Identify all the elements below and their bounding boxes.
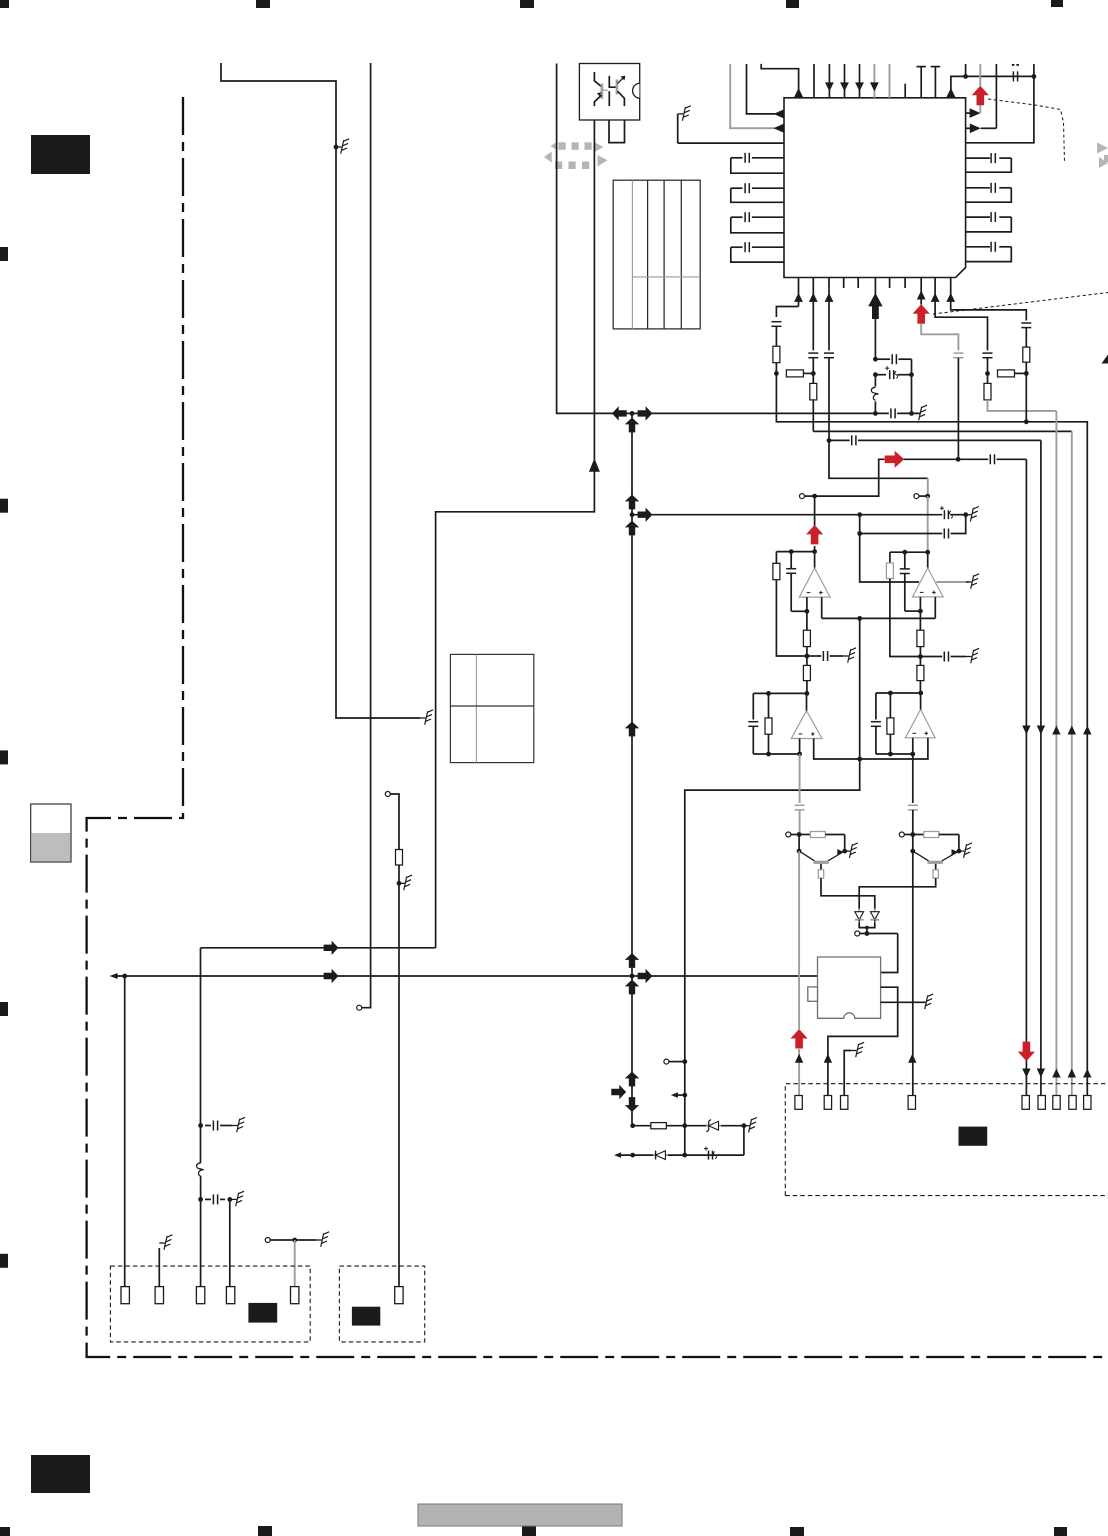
junction db r1 c xyxy=(742,1123,747,1128)
op-amp U2a xyxy=(791,711,822,739)
ground at wire A bottom xyxy=(420,717,426,719)
flow cluster 1 junction xyxy=(630,411,635,416)
ground crystal row xyxy=(914,412,920,414)
transistor Q1 base lead xyxy=(799,851,814,861)
junction on wire A xyxy=(334,145,339,150)
table 2x2 block xyxy=(450,654,533,762)
wire U2a top rail xyxy=(753,692,807,694)
wire chain right upper xyxy=(912,754,914,803)
wire U1b fb left drop xyxy=(889,552,891,563)
wire U1b output lower xyxy=(927,552,929,568)
wire top-left vertical run B xyxy=(362,63,371,1008)
junction Q2 top xyxy=(910,832,915,837)
black label block top-left xyxy=(31,135,90,174)
resistor Q1 base gray xyxy=(799,834,810,836)
junction Q1 base xyxy=(797,849,802,854)
IC pin bottom 6 arrow xyxy=(931,293,940,302)
arrow row4 upper xyxy=(1068,726,1076,735)
junction red row x958 xyxy=(956,457,961,462)
CN1 pin 3 xyxy=(196,1287,204,1304)
wire bus tail xyxy=(951,514,966,516)
flow cluster 4 arrow below xyxy=(625,980,639,995)
junction U2b rail m xyxy=(888,691,893,696)
wire x594 vertical xyxy=(436,120,595,948)
IC pin top 6 wire gray xyxy=(873,64,875,98)
junction U1a fb xyxy=(812,549,817,554)
resistor U1b inv 2 xyxy=(917,665,924,680)
ground CN3 pin3 xyxy=(851,1050,857,1052)
wire diode row drop xyxy=(881,934,898,973)
wire row3 with cap xyxy=(829,439,850,441)
resistor row x776-x813 xyxy=(776,372,778,374)
IC pin bottom 1 arrow xyxy=(794,293,803,302)
wire crystal left rail xyxy=(874,319,876,359)
junction U2b rail r xyxy=(918,691,923,696)
IC pin bottom 3 arrow xyxy=(825,293,834,302)
wire red row right xyxy=(904,458,989,460)
junction cap row2 xyxy=(198,1197,203,1202)
dashed leader line from red arrow A xyxy=(988,99,1065,163)
legend box two-tone xyxy=(31,804,71,862)
junction db r1 b xyxy=(682,1123,687,1128)
relay bottom route xyxy=(828,987,898,1095)
junction Q2 base xyxy=(910,849,915,854)
arrow chain right pin xyxy=(908,1054,916,1063)
dots above capacitor xyxy=(1012,64,1015,66)
ground on x399 xyxy=(399,882,405,884)
arrow out row1 xyxy=(774,109,785,119)
junction U1b out top xyxy=(925,494,930,499)
IC pin top 5 wire xyxy=(859,64,861,98)
junction x684 stub2 xyxy=(682,1093,687,1098)
flow arrow on line B xyxy=(324,969,339,983)
ground relay xyxy=(920,1001,926,1003)
terminal circle x388 xyxy=(385,792,390,797)
capacitor chain right gray xyxy=(908,804,918,806)
red arrow C right xyxy=(885,451,905,468)
wire chain gray pin tail xyxy=(798,1049,800,1096)
IC pin top 1 wire xyxy=(761,64,798,98)
dashed leader line from red arrow B xyxy=(933,293,1108,315)
transistor Q2 base lead xyxy=(913,851,929,861)
registration mark bottom 5 xyxy=(1054,1527,1067,1536)
wire U2b inv xyxy=(912,738,914,754)
arrow relay route pin xyxy=(824,1054,832,1063)
wire IC right out row2 xyxy=(966,127,971,129)
flow cluster 4 junction xyxy=(630,974,635,979)
resistor rail x776 xyxy=(773,346,780,363)
wire Q2 right drop xyxy=(958,835,960,852)
wire riser to opamp U2b out gray xyxy=(927,478,929,496)
ground Q1 emitter xyxy=(845,850,851,852)
resistor row x987-x1026 xyxy=(988,372,990,374)
wire U2a out riser xyxy=(806,693,808,710)
registration mark bottom 1 xyxy=(0,1527,10,1536)
wire IC left out row1 xyxy=(747,64,776,114)
arrow row1 lower xyxy=(1022,1069,1030,1078)
wire gray step x958 xyxy=(921,324,958,351)
junction U1b cap bottom xyxy=(918,609,923,614)
arrow row3 lower xyxy=(1037,1069,1045,1078)
filter loop left 1 xyxy=(752,157,784,159)
stub Q1 circle xyxy=(791,834,799,836)
electrolytic cap on bus xyxy=(943,510,945,519)
junction diode mid xyxy=(865,926,869,930)
IC pin bottom 7 wire xyxy=(950,278,952,300)
CN1 pin 2 xyxy=(155,1287,163,1304)
transistor Q1 collector xyxy=(820,864,822,870)
CN3 pin 1 xyxy=(795,1096,802,1110)
filter loop left 3 xyxy=(752,216,784,218)
red arrow D down xyxy=(1018,1042,1035,1062)
junction bus ground xyxy=(963,512,968,517)
wire U1a inv input xyxy=(806,597,808,630)
CN2 label block xyxy=(352,1307,380,1326)
IC pin top 11 wire xyxy=(951,76,966,97)
resistor U1a inv 2 xyxy=(803,665,810,680)
CN3 label block xyxy=(959,1127,988,1146)
photocoupler transistor left xyxy=(594,72,601,87)
junction right rail xyxy=(963,74,968,79)
IC pin bottom 3 wire xyxy=(828,278,830,351)
junction cap row2 right xyxy=(227,1197,232,1202)
CN3 pin 5 xyxy=(1022,1096,1029,1110)
wire U1a cap bottom link xyxy=(791,610,807,612)
CN1 pin 1 xyxy=(121,1287,129,1304)
junction cap row1 xyxy=(198,1123,203,1128)
wire chain gray to pin xyxy=(798,851,800,1029)
wire U1a fb row xyxy=(776,551,814,553)
wire U1a output riser xyxy=(814,496,816,527)
wire U2a bottom rail xyxy=(753,753,799,755)
wire ground row into IC xyxy=(678,142,784,144)
wire crystal mid row xyxy=(875,374,886,376)
flow cluster 2 arrow right xyxy=(638,508,653,522)
op-amp U1b xyxy=(913,568,944,597)
resistor U2b fb xyxy=(889,693,891,718)
IC pin bottom stub d xyxy=(904,278,906,289)
op-amp U2b xyxy=(905,710,935,738)
IC pin top 6 arrow xyxy=(870,82,879,91)
transistor Q1 emitter lead xyxy=(828,852,843,861)
terminal circle U1a out xyxy=(800,494,805,499)
ground cap row2 xyxy=(231,1198,237,1200)
terminal circle Q1 xyxy=(786,832,791,837)
registration mark top 5 xyxy=(1051,0,1063,7)
registration mark left 1 xyxy=(0,247,8,261)
junction right rail 2 xyxy=(1032,74,1037,79)
photocoupler bottom tab xyxy=(609,120,625,143)
wire U1a inv lower xyxy=(806,681,808,694)
junction rail x813 xyxy=(811,371,816,376)
arrow row3 upper xyxy=(1037,726,1045,735)
IC pin top 5 arrow xyxy=(855,82,864,91)
junction U1a fb cap xyxy=(789,549,794,554)
filter loop right 2 xyxy=(966,187,990,189)
IC pin top 10 wire T xyxy=(934,67,936,98)
wire noninv row y618 xyxy=(822,617,936,619)
junction crystal tr xyxy=(909,372,914,377)
terminal circle x684 xyxy=(664,1059,669,1064)
junction U2a brail r xyxy=(797,752,802,757)
junction crystal bl xyxy=(873,411,878,416)
capacitor double x1026 xyxy=(1021,322,1031,324)
junction U2a rail r xyxy=(805,691,810,696)
registration mark left 5 xyxy=(0,1254,8,1268)
wire x1026 mid xyxy=(1025,362,1027,422)
IC pin bottom 7 arrow xyxy=(946,293,955,302)
CN1 pin 4 xyxy=(226,1287,234,1304)
wire row4 drop gray xyxy=(1071,431,1073,1095)
CN1 pin 5 xyxy=(291,1287,299,1304)
ground top small circuit xyxy=(678,113,684,115)
wire bus y515 xyxy=(632,514,942,516)
capacitor U1b fb xyxy=(904,552,906,569)
flow arrow above cluster 2 xyxy=(625,495,639,510)
terminal circle wire B xyxy=(357,1005,362,1010)
flow arrow on line A xyxy=(324,941,339,955)
flow cluster 1 arrow below xyxy=(625,418,639,433)
registration mark top 3 xyxy=(520,0,534,8)
ground diode block xyxy=(744,1125,750,1127)
capacitor chain left gray xyxy=(795,804,805,806)
junction Q1 top xyxy=(797,832,802,837)
wire Q1 right drop xyxy=(844,835,846,852)
junction diode row xyxy=(865,931,870,936)
wire diode row xyxy=(860,933,898,935)
IC pin bottom 4 wire big xyxy=(874,278,876,320)
wire U1b fb left lower xyxy=(890,579,920,657)
wire U1b noninv drop xyxy=(934,597,936,619)
junction db r2 b xyxy=(682,1153,687,1158)
junction db r2 a xyxy=(630,1153,635,1158)
flow cluster 2 junction xyxy=(630,512,635,517)
junction Q1 emitter xyxy=(842,849,847,854)
wire U2b bottom rail xyxy=(876,753,913,755)
stub circle x684 xyxy=(669,1061,685,1063)
IC pin top 3 wire xyxy=(828,64,830,98)
registration mark left 3 xyxy=(0,750,8,764)
registration mark top-left xyxy=(0,0,9,8)
IC pin top 8 stub xyxy=(904,84,906,98)
wire CN1 pin5 riser gray xyxy=(294,1240,296,1287)
arrow out row2 right xyxy=(970,124,981,134)
junction U1b fb cap xyxy=(902,550,907,555)
filter loop right 3 xyxy=(966,216,990,218)
wire row1 drop xyxy=(1025,459,1027,1095)
resistor x1026 xyxy=(1023,347,1030,362)
wire gray x987 to row2 xyxy=(988,400,1057,411)
arrow row2 lower xyxy=(1052,1069,1060,1078)
wire gray riser x980 xyxy=(979,64,981,86)
wire IC left out row2 gray xyxy=(730,64,775,128)
wire IC right top rail xyxy=(966,75,1032,77)
gray footer bar xyxy=(418,1504,622,1526)
arrow up on wire x594 xyxy=(589,458,600,472)
registration mark top 2 xyxy=(256,0,270,8)
diode D1 xyxy=(858,909,860,912)
junction U2b brail r xyxy=(910,752,915,757)
junction U1a cap bottom xyxy=(805,609,810,614)
wire U2a noninv xyxy=(814,739,860,760)
wire circle to junction xyxy=(270,1239,316,1241)
capacitor U1a fb xyxy=(790,552,792,569)
junction U2a brail m xyxy=(766,752,771,757)
wire IC right out row1 xyxy=(966,112,971,114)
junction U1b mid xyxy=(918,654,923,659)
arrow chain left pin xyxy=(795,1054,803,1063)
photocoupler PC1 box xyxy=(579,64,639,121)
junction shield row2 xyxy=(857,531,862,536)
junction U2b brail m xyxy=(888,752,893,757)
IC pin bottom stub a xyxy=(843,278,845,289)
wire U1b cap bottom link xyxy=(905,610,921,612)
wire center drop x859 xyxy=(859,618,861,759)
wire CN1 pin1 drop xyxy=(124,976,126,1287)
junction shield top xyxy=(857,512,862,517)
wire crystal right rail xyxy=(911,359,913,413)
CN3 pin 2 xyxy=(824,1096,831,1110)
wire shield gray right xyxy=(936,581,969,583)
resistor U2a fb xyxy=(768,693,770,718)
flow arrow above cluster 4 xyxy=(625,953,639,968)
flow cluster 1 arrow right xyxy=(638,406,653,420)
wire U1a noninv drop xyxy=(821,597,823,618)
ground CN1 pin2 xyxy=(159,1242,165,1244)
connector CN2 dashed box xyxy=(339,1266,424,1342)
ground shield right xyxy=(966,581,972,583)
registration mark left 4 xyxy=(0,1002,8,1016)
ground cap row1 xyxy=(232,1125,238,1127)
wire chain right lower xyxy=(912,810,914,1096)
stub above junction xyxy=(965,64,967,76)
junction row5 x1026 xyxy=(1024,419,1029,424)
IC pin top 3 arrow xyxy=(825,82,834,91)
resistor Q2 base gray xyxy=(913,834,924,836)
diode block lower diode xyxy=(653,1154,656,1156)
filter loop right 4 xyxy=(966,246,990,248)
wire right loop down xyxy=(966,64,1034,143)
transistor Q1 base bar xyxy=(814,861,829,864)
wire chain left gray upper xyxy=(799,754,801,803)
transistor Q2 collector xyxy=(935,864,937,870)
flow cluster 4 arrow right xyxy=(638,969,653,983)
zener diode block xyxy=(706,1125,709,1127)
junction center drop plus row xyxy=(857,757,862,762)
registration mark bottom 3 xyxy=(522,1526,536,1536)
CN1 label block xyxy=(248,1303,277,1323)
filter loop left 4 xyxy=(752,246,784,248)
junction db r1 a xyxy=(630,1123,635,1128)
partial arrow at right edge xyxy=(1102,355,1108,364)
ground bus xyxy=(966,514,972,516)
wire x399 from circle xyxy=(390,794,399,1287)
IC pin bottom 6 wire xyxy=(934,278,936,300)
wire U1a output lower xyxy=(814,546,816,568)
gray dashed loop arrow marker (left) xyxy=(559,142,566,150)
wire Q1 collector row xyxy=(821,878,875,908)
flow arrow cluster 3 xyxy=(625,722,639,737)
left arrowhead line B xyxy=(110,973,118,979)
wire shield row left xyxy=(860,515,919,582)
ground mid-left xyxy=(316,1239,322,1241)
IC pin top 7 wire gray xyxy=(889,64,891,98)
wire cluster1 long row xyxy=(655,412,889,414)
terminal circle mid-left xyxy=(265,1238,270,1243)
wire U1b inv input xyxy=(919,597,921,630)
wire CN1 pin2 ground stub xyxy=(158,1248,160,1287)
IC pin bottom 5 wire xyxy=(920,278,922,305)
inductor L1 on pin3 wire xyxy=(197,1163,204,1176)
IC pin top 1 arrow xyxy=(794,88,803,97)
flow cluster 2 arrow below xyxy=(625,521,639,536)
CN3 pin 7 xyxy=(1053,1096,1060,1110)
capacitor U2b fb xyxy=(875,693,877,720)
resistor U1a inv 1 xyxy=(803,630,810,646)
table grid block xyxy=(613,180,700,329)
red arrow A up xyxy=(972,86,989,106)
transistor Q2 base bar xyxy=(928,861,943,864)
transistor Q2 emitter lead xyxy=(942,852,957,861)
junction crystal br xyxy=(909,411,914,416)
resistor U1b inv 1 xyxy=(917,630,924,646)
IC pin bottom stub b xyxy=(857,278,859,289)
wire diode block row2 xyxy=(619,1154,744,1156)
ground U1a mid xyxy=(843,655,849,657)
capacitor rail x776 xyxy=(771,321,781,323)
wire rail x776 to row5 xyxy=(776,373,1087,1095)
junction U1a out top xyxy=(812,494,817,499)
capacitor at CN1 pin3 upper xyxy=(212,1121,214,1131)
wire top-left vertical run A xyxy=(221,63,420,718)
junction U2a rail m xyxy=(766,691,771,696)
resistor Q2 collector xyxy=(933,870,938,878)
IC pin bottom 2 arrow xyxy=(809,293,818,302)
filter loop left 2 xyxy=(752,187,784,189)
arrow row2 upper xyxy=(1052,726,1060,735)
IC pin bottom 2 wire xyxy=(812,278,814,351)
IC pin top 2 wire xyxy=(813,64,815,98)
wire U1b fb row xyxy=(890,551,928,553)
wire U1b inv lower xyxy=(919,681,921,693)
flow arrow cluster 5 down xyxy=(625,1097,639,1112)
capacitor at CN1 pin3 lower xyxy=(212,1194,214,1204)
wire line A horizontal xyxy=(201,947,436,949)
relay right ground row xyxy=(881,1001,925,1003)
stub circle U1a xyxy=(805,495,815,497)
wire U2b out riser xyxy=(920,693,922,710)
ground Q2 emitter xyxy=(959,850,965,852)
arrow down row5 lower xyxy=(1083,1069,1091,1078)
wire center drop foot xyxy=(685,759,860,1155)
big arrow into IC xyxy=(868,293,882,307)
black label block bottom-left xyxy=(31,1455,90,1493)
flow cluster 1 arrow left xyxy=(612,406,627,420)
capacitor on right rail xyxy=(1012,71,1014,81)
diode D2 xyxy=(874,909,876,912)
connector CN1 dashed box xyxy=(110,1266,310,1342)
CN3 pin 6 xyxy=(1038,1096,1045,1110)
registration mark top 4 xyxy=(786,0,799,8)
arrow out row1 right xyxy=(970,108,981,118)
wire CN1 pin3 riser xyxy=(200,948,202,1163)
relay S1 box xyxy=(818,957,881,1018)
IC U1 main body xyxy=(784,98,966,278)
arrow row4 lower xyxy=(1068,1069,1076,1078)
capacitor rail x813 xyxy=(808,352,818,354)
junction U1b fb xyxy=(925,550,930,555)
registration mark bottom 2 xyxy=(258,1526,272,1536)
